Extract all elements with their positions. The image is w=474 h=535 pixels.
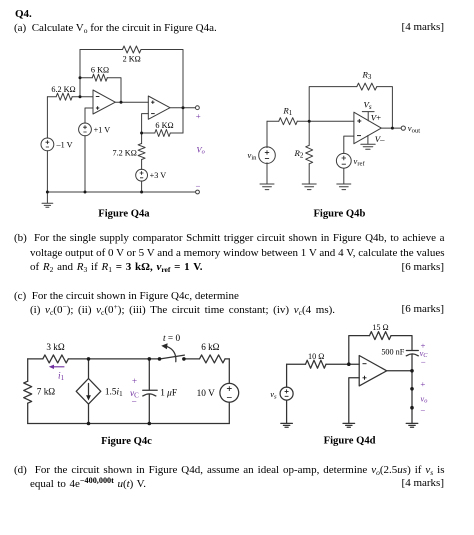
svg-text:3 kΩ: 3 kΩ bbox=[46, 342, 64, 352]
svg-text:vref: vref bbox=[354, 156, 366, 168]
svg-text:10 Ω: 10 Ω bbox=[308, 352, 324, 361]
svg-text:10 V: 10 V bbox=[197, 389, 215, 399]
svg-text:R2: R2 bbox=[294, 148, 304, 160]
svg-text:Vo: Vo bbox=[197, 145, 205, 155]
svg-text:+: + bbox=[196, 111, 201, 121]
svg-text:vin: vin bbox=[248, 150, 258, 162]
svg-text:vout: vout bbox=[408, 123, 420, 135]
svg-text:−: − bbox=[131, 398, 136, 408]
svg-text:−: − bbox=[421, 357, 426, 367]
svg-text:6 kΩ: 6 kΩ bbox=[201, 342, 219, 352]
svg-text:R1: R1 bbox=[282, 106, 292, 118]
svg-text:15 Ω: 15 Ω bbox=[372, 323, 388, 332]
svg-text:6.2 KΩ: 6.2 KΩ bbox=[51, 85, 75, 94]
svg-text:Figure Q4a: Figure Q4a bbox=[98, 208, 150, 219]
svg-text:1 μF: 1 μF bbox=[160, 389, 177, 399]
svg-text:2 KΩ: 2 KΩ bbox=[123, 55, 141, 64]
svg-text:−: − bbox=[420, 405, 425, 415]
svg-text:–1 V: –1 V bbox=[56, 140, 73, 149]
svg-text:6 KΩ: 6 KΩ bbox=[91, 66, 109, 75]
svg-text:Vs: Vs bbox=[364, 100, 372, 112]
svg-text:V–: V– bbox=[375, 134, 385, 144]
svg-text:Figure Q4c: Figure Q4c bbox=[101, 436, 152, 447]
svg-text:t = 0: t = 0 bbox=[163, 334, 180, 344]
svg-text:V+: V+ bbox=[371, 112, 381, 122]
svg-text:i1: i1 bbox=[58, 371, 65, 382]
svg-text:+: + bbox=[132, 377, 137, 387]
svg-text:7 kΩ: 7 kΩ bbox=[37, 387, 55, 397]
svg-text:+3 V: +3 V bbox=[150, 171, 167, 180]
svg-text:−: − bbox=[196, 181, 201, 191]
svg-text:Figure Q4b: Figure Q4b bbox=[313, 208, 365, 219]
svg-text:vo: vo bbox=[421, 394, 428, 404]
svg-text:vs: vs bbox=[270, 389, 277, 401]
svg-text:500 nF: 500 nF bbox=[381, 348, 404, 357]
svg-text:R3: R3 bbox=[362, 70, 372, 82]
svg-text:1.5i1: 1.5i1 bbox=[105, 388, 123, 399]
svg-text:6 KΩ: 6 KΩ bbox=[155, 121, 173, 130]
svg-text:+1 V: +1 V bbox=[94, 125, 111, 134]
svg-text:7.2 KΩ: 7.2 KΩ bbox=[113, 148, 137, 157]
svg-text:+: + bbox=[420, 379, 425, 389]
svg-text:Figure Q4d: Figure Q4d bbox=[324, 435, 376, 446]
